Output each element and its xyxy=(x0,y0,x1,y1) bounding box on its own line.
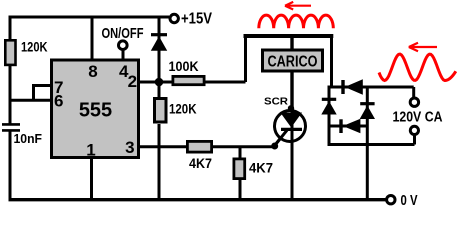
svg-text:6: 6 xyxy=(54,91,63,110)
svg-text:8: 8 xyxy=(88,62,97,81)
svg-text:4K7: 4K7 xyxy=(249,159,273,175)
wire carico bottom to SCR anode xyxy=(290,72,293,111)
wire bridge right rail down to 0V rail xyxy=(366,87,369,200)
svg-text:3: 3 xyxy=(125,138,134,157)
diode D3 bridge left xyxy=(321,99,336,114)
svg-text:1: 1 xyxy=(86,141,95,160)
diode D1 xyxy=(151,35,167,51)
node pin2 junction dot xyxy=(155,78,164,87)
terminal 0V xyxy=(387,196,395,204)
svg-text:120K: 120K xyxy=(169,101,197,117)
wire ON/OFF terminal stub to pin 4 xyxy=(122,50,125,60)
diode D2 bridge top xyxy=(343,79,363,94)
wire SCR cathode to bottom rail xyxy=(291,142,294,201)
svg-text:120K: 120K xyxy=(21,38,48,54)
terminal ON/OFF xyxy=(119,41,128,50)
wire pin 7 jumper xyxy=(34,86,52,101)
node SCR anode dot xyxy=(288,105,294,111)
SCR Q1 xyxy=(273,109,306,148)
svg-text:100K: 100K xyxy=(169,58,199,74)
wire pin 2 to node xyxy=(139,81,172,84)
wire pin2 node down through 120K to bottom rail xyxy=(158,124,161,201)
mains sine wave (red) xyxy=(379,54,456,80)
load box CARICO xyxy=(263,50,323,71)
svg-text:0 V: 0 V xyxy=(401,193,418,209)
wire SCR gate diagonal xyxy=(273,130,287,147)
svg-text:120V CA: 120V CA xyxy=(393,109,443,125)
terminal +15V xyxy=(170,14,178,22)
wire pin 1 to bottom rail xyxy=(90,157,93,200)
wire pin 3 output xyxy=(139,145,273,148)
wire 4K7 vertical stubs xyxy=(239,147,242,201)
wire top-left horizontal rail to +15V xyxy=(9,16,170,19)
wire left rail upper segment xyxy=(9,16,12,125)
capacitor 10nF xyxy=(2,124,20,130)
IC U1 555 xyxy=(52,60,139,158)
node SCR gate junction dot xyxy=(271,143,278,150)
svg-text:2: 2 xyxy=(128,72,137,91)
wire +15V junction vertical through diode to pin2 node xyxy=(158,17,161,98)
wire pin 6 to left rail xyxy=(10,99,51,102)
wire bridge left rail xyxy=(328,86,331,147)
wire 100K right side xyxy=(205,81,246,84)
svg-text:10nF: 10nF xyxy=(14,131,43,146)
wire pin 8 to top rail xyxy=(91,17,94,60)
wire bridge bottom xyxy=(328,143,415,146)
wire bottom 0V rail xyxy=(9,198,387,201)
coil current arrow (red) xyxy=(285,2,311,10)
resistor R1 120K (left) xyxy=(5,40,15,65)
wire left rail lower segment xyxy=(9,131,12,201)
wire lower 120V terminal stub xyxy=(413,135,416,144)
svg-text:CARICO: CARICO xyxy=(268,53,318,70)
svg-text:+15V: +15V xyxy=(181,11,213,28)
resistor R5 4K7 (vertical) xyxy=(234,159,245,179)
terminal 120V upper xyxy=(410,98,418,106)
inductor coil (red) xyxy=(259,15,333,28)
svg-text:SCR: SCR xyxy=(264,95,288,107)
diode D4 bridge right xyxy=(360,104,375,119)
wire carico top stub xyxy=(290,36,293,50)
svg-text:555: 555 xyxy=(79,100,112,122)
wire carico top rail xyxy=(244,34,334,38)
terminal 120V lower xyxy=(410,126,418,134)
svg-text:4K7: 4K7 xyxy=(189,155,212,171)
resistor R2 100K xyxy=(173,76,204,84)
resistor R4 4K7 (horizontal) xyxy=(187,141,211,152)
wire coil right vertical to bridge xyxy=(330,36,333,89)
wire upper 120V terminal stub xyxy=(412,87,415,98)
wire bridge top xyxy=(328,86,414,89)
resistor R3 120K (middle) xyxy=(155,99,167,123)
wire bridge middle xyxy=(329,125,367,128)
wire up to carico rail xyxy=(244,36,247,82)
svg-text:ON/OFF: ON/OFF xyxy=(102,25,144,42)
diode D5 bridge middle xyxy=(341,119,360,134)
mains current arrow (red) xyxy=(409,43,437,52)
